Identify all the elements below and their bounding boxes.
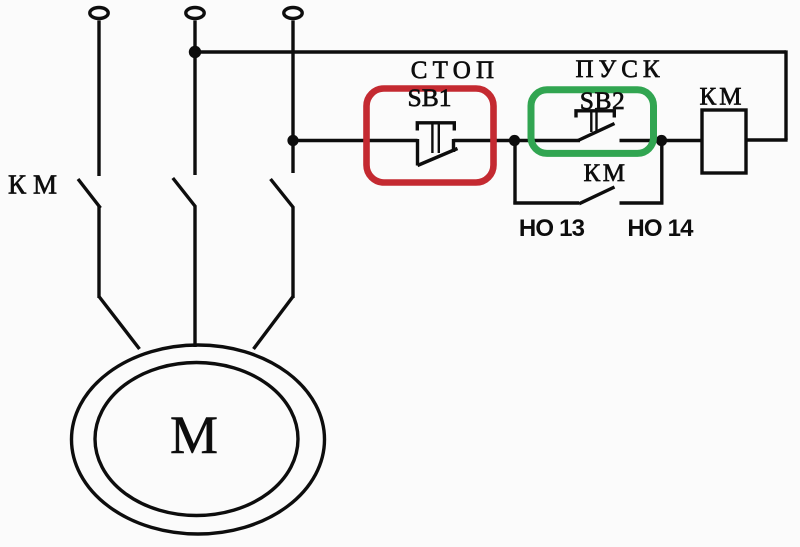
start button SB2 plunger stem <box>591 112 596 132</box>
junction node A <box>509 135 520 146</box>
junction node top bus / phase B <box>189 46 201 58</box>
wire latch branch left drop <box>513 141 516 205</box>
wire phase A to motor <box>99 297 140 350</box>
wire phase C lower <box>291 207 294 299</box>
highlight box around SB1 (red) <box>367 89 494 183</box>
motor M outer circle <box>72 345 325 534</box>
auxiliary contact KM (NO) <box>579 187 615 204</box>
junction node B <box>656 135 667 146</box>
stop button SB1 fixed contact right <box>452 139 455 152</box>
junction node control branch on phase C <box>287 135 298 146</box>
svg-text:SB2: SB2 <box>580 86 625 115</box>
stop button SB1 fixed contact left <box>416 139 419 166</box>
terminal L3 <box>284 8 302 19</box>
wire phase C to motor <box>254 297 294 350</box>
wire phase A upper <box>97 21 100 177</box>
svg-text:SB1: SB1 <box>408 83 452 112</box>
wire phase C upper <box>291 21 294 174</box>
wire latch bottom right <box>620 201 664 204</box>
contactor KM main contact 2 <box>173 178 196 207</box>
svg-text:НО 14: НО 14 <box>627 215 694 242</box>
terminal L1 <box>90 8 108 19</box>
contactor KM main contact 1 <box>78 179 101 208</box>
right riser wire <box>784 50 787 140</box>
svg-text:М: М <box>170 405 218 465</box>
terminal L2 <box>186 8 204 19</box>
highlight box around SB2 (green) <box>531 90 654 154</box>
wire phase A lower <box>97 207 100 299</box>
stop button SB1 plunger stem <box>432 124 438 153</box>
svg-text:НО 13: НО 13 <box>519 215 585 242</box>
wire latch bottom left <box>513 201 579 204</box>
svg-text:КМ: КМ <box>8 170 64 200</box>
wire phase B upper <box>193 21 196 176</box>
stop button SB1 moving contact <box>418 149 458 166</box>
motor M inner circle <box>95 363 298 516</box>
wire phase B to motor <box>193 206 196 348</box>
wire node B to coil KM <box>662 139 703 142</box>
wire SB1 to node A <box>454 139 516 142</box>
svg-text:СТОП: СТОП <box>411 57 500 84</box>
wire latch branch right drop <box>660 141 663 205</box>
start button SB2 plunger <box>576 111 614 118</box>
contactor KM main contact 3 <box>271 179 294 208</box>
contactor coil KM <box>702 110 746 173</box>
wire SB2 to node B <box>620 139 663 142</box>
wire coil KM to riser <box>746 138 788 141</box>
wire node A to SB2 <box>515 139 581 142</box>
top bus wire <box>195 50 786 53</box>
svg-text:КМ: КМ <box>584 160 628 187</box>
svg-text:ПУСК: ПУСК <box>575 56 664 83</box>
svg-text:КМ: КМ <box>700 84 745 111</box>
wire control to SB1 <box>293 139 418 142</box>
start button SB2 moving contact <box>578 124 615 141</box>
stop button SB1 plunger <box>417 123 454 131</box>
